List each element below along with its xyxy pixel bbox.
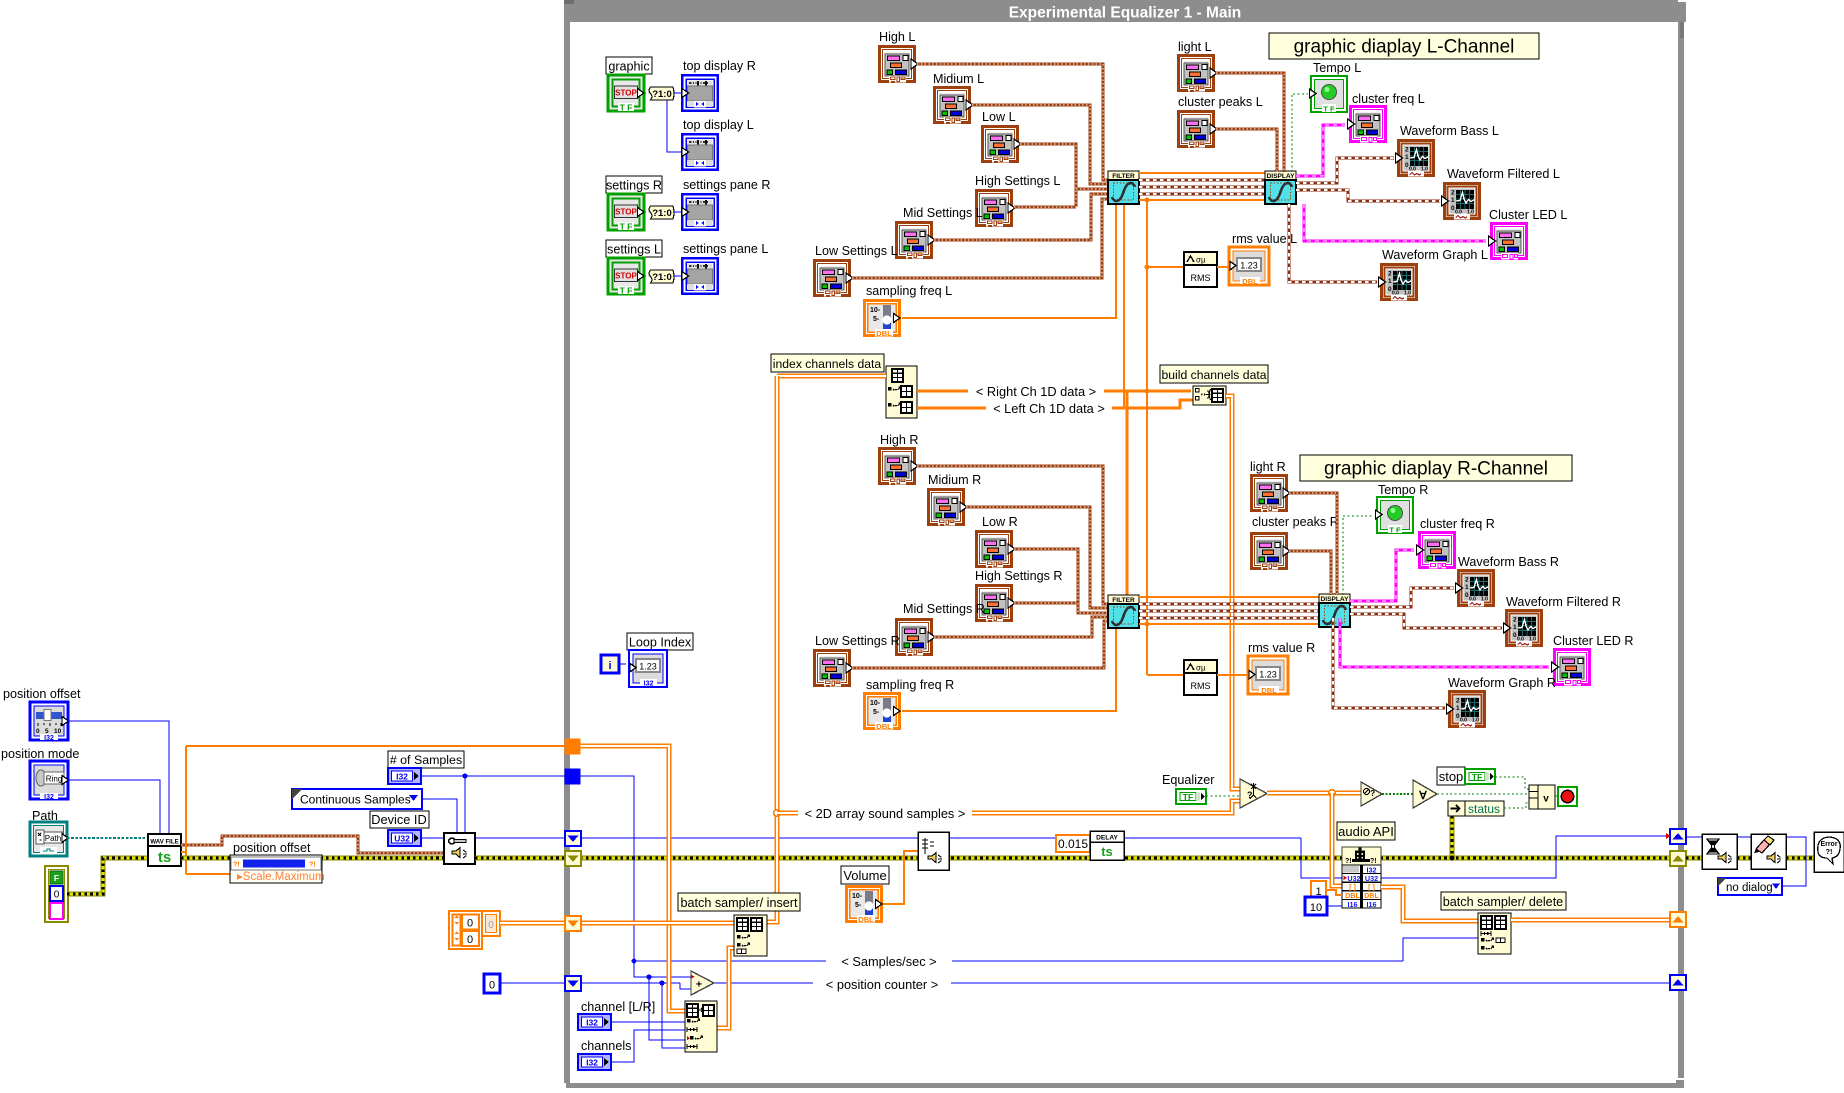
- wire High R to FILTER R: [917, 466, 1108, 604]
- boolean control settings L STOP: [608, 258, 644, 296]
- wire constant 10 to audio API: [1327, 905, 1342, 907]
- wire Device ID to sound format node: [421, 837, 444, 839]
- svg-text:Path: Path: [45, 834, 61, 843]
- svg-text:?!: ?!: [1825, 847, 1832, 856]
- array constant volume pair: [449, 911, 500, 949]
- wire DISPLAY L to cluster freq L: [1296, 125, 1345, 176]
- svg-text:graphic diaplay L-Channel: graphic diaplay L-Channel: [1294, 37, 1515, 58]
- svg-text:Equalizer: Equalizer: [1162, 773, 1215, 787]
- label Low R: [982, 515, 1018, 529]
- svg-text:settings pane L: settings pane L: [683, 242, 768, 256]
- label Device ID: [370, 811, 429, 828]
- svg-text:?!: ?!: [309, 862, 316, 869]
- cluster control Mid Settings L: [895, 221, 935, 259]
- wire Midium L to FILTER L: [972, 105, 1108, 184]
- junction position counter: [659, 980, 664, 985]
- svg-text:Experimental Equalizer 1 - Mai: Experimental Equalizer 1 - Main: [1009, 5, 1242, 22]
- label Tempo R: [1378, 483, 1428, 497]
- wire constant 1 to audio API: [1326, 890, 1342, 895]
- wire Low Settings L to FILTER L: [852, 199, 1108, 278]
- select node settings R ?1:0: [649, 206, 674, 219]
- label Right Ch 1D data: [968, 383, 1104, 399]
- svg-text:10: 10: [1310, 902, 1322, 914]
- label build channels data: [1160, 365, 1268, 383]
- node compound or: [1529, 785, 1555, 809]
- wire empty to and-all: [1382, 793, 1413, 795]
- svg-text:graphic diaplay R-Channel: graphic diaplay R-Channel: [1324, 459, 1548, 480]
- wire FILTER L orange row 1: [1139, 172, 1265, 174]
- wire DISPLAY L to Waveform Graph L: [1289, 204, 1377, 282]
- svg-text:DELAY: DELAY: [1096, 835, 1118, 842]
- while loop frame: [564, 0, 1686, 1088]
- control channel I32: [578, 1014, 611, 1030]
- cluster indicator Cluster LED L: [1489, 222, 1529, 260]
- svg-text:< position counter >: < position counter >: [826, 977, 938, 992]
- node sound write: [918, 832, 949, 870]
- cluster control Midium L: [933, 86, 973, 124]
- wire RMS R to rms value R: [1217, 674, 1248, 676]
- wire FILTER L orange row 2: [1139, 199, 1265, 201]
- node increment: [691, 971, 714, 995]
- label position counter: [813, 975, 951, 992]
- junction increment feed: [646, 974, 651, 979]
- label sampling freq L: [866, 284, 952, 298]
- label Waveform Filtered R: [1506, 595, 1621, 609]
- svg-text:F: F: [54, 873, 59, 883]
- boolean control settings R STOP: [608, 194, 644, 232]
- cluster control Low Settings L: [813, 259, 853, 297]
- wire DISPLAY R to Tempo R: [1343, 516, 1374, 595]
- control Volume knob: [845, 885, 883, 924]
- indicator Loop Index: [629, 650, 667, 688]
- node channel interleave build: [685, 1001, 717, 1052]
- cluster control High R: [878, 447, 918, 485]
- wire audio API array out to batch delete: [1381, 887, 1478, 921]
- wire samples sec to batch delete: [1403, 938, 1478, 961]
- node RMS L: [1184, 252, 1217, 287]
- svg-text:0: 0: [36, 728, 40, 735]
- label channels: [581, 1039, 631, 1053]
- waveform graph Waveform Filtered R: [1504, 609, 1544, 647]
- wire channels to interleave: [611, 1030, 685, 1062]
- label batch sampler/ insert: [678, 893, 800, 911]
- cluster control sampling freq R: [863, 692, 901, 731]
- label light R: [1250, 460, 1286, 474]
- svg-text:position offset: position offset: [233, 841, 311, 855]
- svg-text:ts: ts: [1101, 844, 1113, 859]
- svg-text:I16: I16: [1348, 900, 1358, 909]
- label batch sampler/ delete: [1441, 892, 1566, 910]
- boolean control graphic STOP: [608, 75, 644, 113]
- svg-text:< Right Ch 1D data >: < Right Ch 1D data >: [976, 384, 1096, 399]
- node RMS R: [1184, 660, 1217, 695]
- svg-text:Mid Settings R: Mid Settings R: [903, 602, 985, 616]
- wire sampling freq R to FILTER R: [902, 627, 1116, 711]
- wire status to compound: [1504, 803, 1529, 808]
- wire array constant to tunnel: [500, 921, 566, 926]
- wire FILTER R orange row 1: [1139, 596, 1319, 598]
- wire Mid Settings L to FILTER L: [934, 194, 1108, 240]
- junction samples sec: [632, 959, 637, 964]
- wire select output: [1267, 791, 1361, 796]
- label cluster freq L: [1352, 92, 1425, 106]
- svg-text:ts: ts: [158, 849, 171, 866]
- path control Path: [30, 822, 68, 856]
- wire sampling freq L to FILTER L: [902, 203, 1116, 318]
- svg-text:Low R: Low R: [982, 515, 1018, 529]
- svg-text:+: +: [696, 979, 702, 991]
- svg-text:0.015: 0.015: [1058, 837, 1088, 851]
- node batch sampler insert: [734, 915, 767, 956]
- wire Low R junction to FILTER R: [1078, 603, 1108, 613]
- label Midium R: [928, 473, 981, 487]
- wire stop to compound: [1495, 777, 1529, 789]
- node FILTER R: [1108, 595, 1139, 628]
- wire 2D array to index channels data: [777, 374, 886, 379]
- wire audio api left input: [1301, 838, 1342, 878]
- shift register volume array right: [1670, 912, 1686, 927]
- junction FILTER L orange: [1144, 197, 1149, 202]
- junction # of Samples wire: [462, 773, 467, 778]
- wire batch delete to tunnel: [1511, 918, 1671, 923]
- waveform graph Waveform Bass R: [1456, 569, 1496, 607]
- wire audio out tunnel to error handler: [1686, 837, 1806, 886]
- label settings L: [606, 240, 662, 257]
- label Loop Index: [627, 633, 693, 650]
- node build channels data: [1193, 386, 1226, 405]
- wire WAVFILE data net vertical: [185, 746, 187, 874]
- svg-text:# of Samples: # of Samples: [390, 753, 462, 767]
- wire to increment node: [634, 961, 649, 977]
- wire Volume to sound write: [883, 851, 918, 904]
- label Low Settings L: [815, 244, 898, 258]
- error cluster constant: [45, 866, 68, 922]
- ring control position mode: [30, 761, 69, 801]
- subpanel indicator settings pane R: [682, 194, 718, 230]
- label audio API: [1337, 822, 1395, 840]
- node audio API: [1342, 847, 1381, 909]
- svg-text:settings R: settings R: [606, 179, 662, 193]
- cluster control Mid Settings R: [895, 618, 935, 656]
- shift register error left: [565, 851, 581, 866]
- node select: [1240, 779, 1267, 808]
- node and array elements: [1413, 780, 1437, 808]
- wire FILTER R waveform row 1: [1139, 602, 1319, 605]
- svg-text:Midium R: Midium R: [928, 473, 981, 487]
- wire tunnel to batch insert: [580, 921, 734, 926]
- svg-text:graphic: graphic: [608, 60, 649, 74]
- wire increment bottom input: [680, 983, 691, 989]
- svg-text:0: 0: [54, 890, 60, 901]
- node DISPLAY R: [1319, 594, 1350, 627]
- wire shift register 2D array: [580, 746, 685, 1011]
- wire error cluster to WAVFILE: [67, 858, 148, 894]
- boolean constant Equalizer TF: [1176, 789, 1206, 804]
- cluster control cluster peaks R: [1250, 532, 1290, 570]
- svg-text:cluster peaks L: cluster peaks L: [1178, 95, 1263, 109]
- svg-text:∀: ∀: [1418, 790, 1427, 802]
- wire Low R to FILTER R: [1014, 549, 1078, 603]
- junction error status: [1450, 856, 1455, 861]
- wire error trunk main: [580, 856, 1671, 861]
- select node settings L ?1:0: [649, 270, 674, 283]
- iteration terminal i: [601, 655, 619, 673]
- waveform graph Waveform Graph R: [1447, 690, 1487, 728]
- wire samples per sec config long: [580, 837, 1301, 839]
- boolean indicator Tempo R: [1376, 497, 1414, 535]
- node wait sound: [1702, 834, 1737, 869]
- svg-text:settings pane R: settings pane R: [683, 178, 771, 192]
- svg-text:channel [L/R]: channel [L/R]: [581, 1000, 655, 1014]
- label rms value R: [1248, 641, 1315, 655]
- svg-text:?!: ?!: [1370, 858, 1377, 865]
- svg-text:position mode: position mode: [1, 747, 79, 761]
- svg-text:Waveform Filtered L: Waveform Filtered L: [1447, 167, 1560, 181]
- svg-text:channels: channels: [581, 1039, 631, 1053]
- label settings pane R: [683, 178, 771, 192]
- label Volume: [841, 866, 889, 884]
- node batch sampler delete: [1478, 913, 1511, 954]
- label rms value L: [1232, 232, 1297, 246]
- wire orange bus to RMS L: [1147, 266, 1184, 268]
- node DISPLAY L: [1265, 171, 1296, 204]
- node clear sound: [1751, 834, 1786, 869]
- svg-text:DISPLAY: DISPLAY: [1267, 173, 1296, 180]
- shift register error right: [1670, 851, 1686, 866]
- wire light L to DISPLAY L: [1216, 73, 1284, 172]
- svg-text:Waveform Graph R: Waveform Graph R: [1448, 676, 1556, 690]
- svg-text:Mid Settings L: Mid Settings L: [903, 206, 983, 220]
- wire cluster peaks R to DISPLAY R: [1289, 551, 1331, 595]
- svg-text:no dialog: no dialog: [1726, 882, 1773, 894]
- subpanel indicator top display L: [682, 134, 718, 170]
- cluster control light L: [1177, 54, 1217, 92]
- wire 2D array sound samples: [777, 801, 1240, 813]
- property node position offset Scale.Maximum: [230, 855, 325, 883]
- indicator rms value R: [1248, 656, 1288, 695]
- cluster indicator Cluster LED R: [1552, 648, 1592, 686]
- label # of Samples: [388, 751, 464, 768]
- label Waveform Graph L: [1382, 248, 1488, 262]
- wire channel to interleave: [611, 1021, 685, 1023]
- wire FILTER R orange row 2: [1139, 623, 1319, 625]
- wire cluster peaks L to DISPLAY L: [1216, 129, 1277, 172]
- constant 1 orange: [1311, 881, 1326, 899]
- wire Right Ch to FILTER R: [1126, 391, 1129, 595]
- label Cluster LED R: [1553, 634, 1633, 648]
- wire FILTER R waveform row 2: [1139, 609, 1319, 612]
- wire DISPLAY R to Cluster LED R: [1340, 618, 1549, 667]
- svg-text:light L: light L: [1178, 40, 1212, 54]
- label Path control: [32, 809, 58, 823]
- svg-text:I32: I32: [44, 735, 54, 742]
- svg-text:?!: ?!: [1345, 858, 1352, 865]
- constant 10 blue: [1305, 897, 1327, 915]
- svg-text:rms value L: rms value L: [1232, 232, 1297, 246]
- wire select graphic to top display R: [673, 92, 681, 94]
- wire # of Samples to tunnel: [421, 775, 566, 777]
- svg-text:Ring: Ring: [46, 775, 62, 784]
- svg-text:?!: ?!: [233, 862, 240, 869]
- wire Low Settings R to FILTER R: [852, 621, 1108, 668]
- wire Right Ch 1D data: [917, 390, 1191, 393]
- svg-text:Waveform Graph L: Waveform Graph L: [1382, 248, 1488, 262]
- shift register position left: [565, 976, 581, 991]
- wire position counter from tunnel: [580, 982, 680, 984]
- svg-text:▸Scale.Maximum: ▸Scale.Maximum: [237, 871, 325, 883]
- wire select settings L to settings pane L: [673, 275, 681, 277]
- svg-text:High L: High L: [879, 30, 915, 44]
- svg-text:WAV FILE: WAV FILE: [150, 839, 178, 846]
- label position offset control: [3, 687, 81, 701]
- svg-text:FILTER: FILTER: [1112, 173, 1135, 180]
- svg-text:status: status: [1468, 802, 1500, 816]
- label 2D array sound samples: [798, 804, 972, 821]
- wire settings L to select: [644, 275, 649, 277]
- label Waveform Bass R: [1458, 555, 1559, 569]
- svg-text:I16: I16: [1367, 900, 1377, 909]
- coercion dot shift register: [1666, 833, 1671, 839]
- wire batch insert output net: [766, 376, 777, 922]
- wire High L to FILTER L: [917, 64, 1108, 180]
- wire position counter to interleave: [662, 983, 685, 1048]
- select node graphic ?1:0: [649, 87, 674, 100]
- label High R: [880, 433, 919, 447]
- wire WAVFILE orange out stub: [181, 851, 186, 853]
- waveform graph Waveform Bass L: [1396, 139, 1436, 177]
- svg-text:Loop Index: Loop Index: [629, 636, 692, 650]
- boolean control stop TF: [1465, 769, 1495, 784]
- waveform graph Waveform Filtered L: [1442, 182, 1482, 220]
- node DELAY ts: [1090, 831, 1124, 860]
- label Waveform Filtered L: [1447, 167, 1560, 181]
- subpanel indicator settings pane L: [682, 258, 718, 294]
- svg-text:v: v: [1543, 794, 1549, 805]
- label cluster peaks R: [1252, 515, 1339, 529]
- subpanel indicator top display R: [682, 75, 718, 111]
- label High L: [879, 30, 915, 44]
- wire DISPLAY L to Waveform Filtered L: [1296, 190, 1440, 201]
- label Left Ch 1D data: [986, 400, 1112, 416]
- svg-text:DISPLAY: DISPLAY: [1321, 596, 1350, 603]
- node index channels data: [886, 366, 917, 418]
- label stop: [1437, 767, 1465, 785]
- cluster indicator cluster freq R: [1417, 531, 1457, 569]
- label settings R: [606, 176, 662, 193]
- wire Left Ch 1D data: [917, 400, 1193, 408]
- svg-text:cluster peaks R: cluster peaks R: [1252, 515, 1339, 529]
- svg-text:Device ID: Device ID: [371, 812, 426, 827]
- wire Mid Settings R to FILTER R: [934, 617, 1108, 637]
- svg-text:sampling freq L: sampling freq L: [866, 284, 952, 298]
- svg-text:batch sampler/ insert: batch sampler/ insert: [681, 896, 798, 910]
- cluster control Low R: [975, 530, 1015, 568]
- wire DISPLAY R to cluster freq R: [1350, 550, 1414, 601]
- wire FILTER R waveform row 3: [1139, 616, 1319, 619]
- svg-text:?: ?: [1370, 788, 1375, 798]
- svg-text:rms value R: rms value R: [1248, 641, 1315, 655]
- svg-text:cluster freq L: cluster freq L: [1352, 92, 1425, 106]
- svg-text:0: 0: [467, 918, 473, 930]
- svg-text:build channels data: build channels data: [1161, 368, 1266, 382]
- svg-text:High Settings R: High Settings R: [975, 569, 1063, 583]
- wire Continuous Samples to sound format node: [422, 799, 457, 833]
- svg-text:< Left Ch 1D data >: < Left Ch 1D data >: [993, 401, 1105, 416]
- label Mid Settings L: [903, 206, 983, 220]
- wire WAVFILE cluster to sound format node: [181, 836, 444, 853]
- label top display L: [683, 118, 754, 132]
- enum constant Continuous Samples: [292, 789, 422, 809]
- wire FILTER L waveform row 1: [1139, 178, 1265, 181]
- svg-text:0: 0: [467, 934, 473, 946]
- svg-text:index channels data: index channels data: [773, 357, 882, 371]
- label cluster peaks L: [1178, 95, 1263, 109]
- wire DISPLAY R to Waveform Graph R: [1333, 618, 1445, 708]
- waveform graph Waveform Graph L: [1379, 263, 1419, 301]
- wire DISPLAY L to Cluster LED L: [1304, 204, 1486, 241]
- wire error wait to clear: [1737, 856, 1751, 861]
- wire constant 0 to tunnel: [500, 982, 566, 984]
- junction orange bus rms L: [1144, 264, 1149, 269]
- wire error tunnel to wait node: [1686, 856, 1702, 861]
- wire Samples per sec: [634, 960, 1403, 962]
- wire position offset to WAVFILE: [68, 721, 169, 834]
- svg-text:Tempo R: Tempo R: [1378, 483, 1428, 497]
- wire compound to stop LED: [1555, 795, 1558, 797]
- wire status error tap: [1450, 816, 1455, 858]
- shift register position right: [1670, 975, 1686, 990]
- wire interleave to insert: [717, 948, 734, 1028]
- wire Low L to FILTER L: [1020, 144, 1076, 207]
- wire # samples down: [580, 776, 634, 961]
- cluster control light R: [1250, 474, 1290, 512]
- loop title Experimental Equalizer 1 - Main: [1009, 5, 1242, 22]
- label Equalizer: [1162, 773, 1215, 787]
- node empty array?: [1361, 782, 1382, 806]
- svg-text:position offset: position offset: [3, 687, 81, 701]
- svg-text:Cluster LED L: Cluster LED L: [1489, 208, 1567, 222]
- tunnel 2D array in: [565, 739, 580, 754]
- junction select output: [1329, 790, 1336, 797]
- shift register audio right: [1670, 829, 1686, 844]
- wire select to audio api: [1332, 793, 1342, 886]
- svg-text:0: 0: [489, 980, 495, 992]
- wire Path to WAVFILE: [67, 837, 148, 839]
- svg-text:stop: stop: [1439, 769, 1464, 784]
- wire error trunk WAVFILE to sound format: [181, 856, 444, 861]
- label top display R: [683, 59, 756, 73]
- cluster control sampling freq L: [863, 299, 901, 338]
- shift register samples config left: [565, 831, 581, 846]
- wire settings R to select: [644, 211, 649, 213]
- label graphic: [606, 57, 652, 74]
- wire DISPLAY R to Waveform Bass R: [1350, 588, 1454, 607]
- constant 0.015: [1056, 835, 1090, 852]
- svg-text:settings L: settings L: [607, 243, 661, 257]
- wire error sound format to tunnel: [475, 856, 566, 861]
- cluster control High Settings L: [975, 189, 1015, 227]
- label sampling freq R: [866, 678, 954, 692]
- label Low L: [982, 110, 1016, 124]
- label Mid Settings R: [903, 602, 985, 616]
- wire DISPLAY L to Waveform Bass L: [1296, 158, 1394, 183]
- label High Settings L: [975, 174, 1060, 188]
- cluster control Low L: [981, 125, 1021, 163]
- cluster control Low Settings R: [813, 649, 853, 687]
- svg-text:Low Settings L: Low Settings L: [815, 244, 898, 258]
- svg-text:Low Settings R: Low Settings R: [815, 634, 900, 648]
- wire FILTER L waveform row 2: [1139, 185, 1265, 188]
